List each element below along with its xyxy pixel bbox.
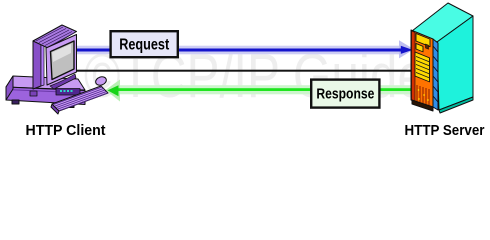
wire: black connection line between client and server	[76, 70, 415, 72]
case floppy slot	[56, 89, 80, 96]
request arrow (blue, client to server)	[76, 40, 414, 58]
case front groove	[6, 90, 85, 94]
server bottom bevel	[439, 97, 473, 113]
HTTP client computer icon	[6, 25, 108, 114]
server front red column	[412, 31, 416, 101]
monitor top face	[33, 25, 77, 48]
HTTP server tower icon	[411, 3, 473, 113]
screen highlight	[52, 44, 71, 62]
server button	[426, 44, 429, 49]
case top face	[6, 76, 85, 90]
case front face	[6, 87, 85, 105]
monitor top vents	[36, 27, 74, 47]
mouse	[94, 75, 107, 86]
keyboard top	[52, 86, 108, 111]
svg-text:Response: Response	[316, 86, 374, 103]
case button	[30, 91, 37, 96]
watermark TCP/IP Guide	[84, 42, 425, 111]
keyboard key rows	[54, 87, 109, 111]
server top rim	[440, 18, 471, 41]
server drive bay 2	[416, 44, 423, 52]
case LEDs	[60, 90, 73, 92]
server drive bay 1	[416, 34, 430, 47]
case left small face	[6, 76, 13, 100]
server top face	[412, 3, 473, 42]
monitor front bezel	[46, 35, 77, 86]
monitor back slab	[33, 37, 41, 89]
case feet	[12, 100, 19, 104]
server lower hatch	[417, 85, 429, 107]
monitor screen	[51, 41, 75, 80]
svg-text:Request: Request	[119, 36, 169, 53]
server front face	[411, 30, 433, 107]
response arrow (green, server to client)	[106, 80, 416, 102]
server base shadow	[412, 100, 433, 111]
server corner strip	[433, 39, 438, 110]
server vent grille	[415, 52, 430, 82]
server right side face	[437, 16, 473, 110]
svg-text:HTTP Client: HTTP Client	[26, 123, 106, 139]
keyboard side	[51, 104, 59, 114]
monitor neck shadow	[50, 74, 76, 89]
monitor slab highlight edge	[41, 36, 44, 86]
Response label box	[311, 80, 379, 108]
Request label box	[111, 31, 178, 57]
svg-text:HTTP Server: HTTP Server	[405, 123, 485, 139]
